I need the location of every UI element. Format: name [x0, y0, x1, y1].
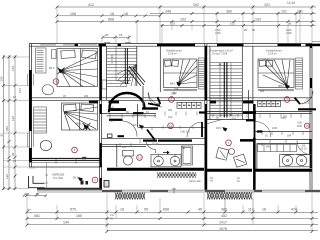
right wall double line	[310, 44, 312, 190]
unit3 bed lamp symbol	[285, 84, 290, 89]
unit2 hall door leaf	[118, 135, 125, 137]
dimension line top 1	[57, 6, 316, 8]
unit1 wardrobe room2	[34, 107, 47, 133]
unit3 hall wall y=131.5	[255, 131, 312, 133]
stair2 text	[210, 50, 233, 56]
svg-text:395: 395	[0, 76, 4, 81]
unit2 bed	[164, 59, 198, 88]
unit1 bed room1	[57, 49, 98, 87]
stair1 duct box	[102, 80, 107, 89]
svg-text:Tra TILE: Tra TILE	[53, 176, 63, 180]
unit2 bed foot line	[164, 89, 198, 91]
unit3 bath door leaf	[309, 140, 311, 155]
svg-text:486: 486	[266, 146, 271, 149]
terrace door ticks	[56, 156, 101, 164]
stair2 stringer	[224, 62, 227, 117]
svg-text:262: 262	[193, 3, 199, 7]
svg-text:12.8 m²: 12.8 m²	[268, 52, 277, 56]
unit3 bath door arc	[297, 141, 309, 155]
stair2 treads	[210, 62, 242, 115]
svg-text:45: 45	[198, 208, 202, 212]
window mullion marks top wall	[40, 43, 131, 45]
dimension extension horizontals left	[4, 57, 30, 189]
dimension line top short stair	[103, 36, 129, 38]
unit3 hall wall vertical	[253, 104, 255, 190]
unit2 bed lamp symbol	[177, 82, 182, 87]
dimension line left 2	[8, 55, 10, 190]
stair2 bottom diagonal	[206, 120, 222, 125]
svg-text:575: 575	[70, 208, 76, 212]
unit1 round table	[40, 141, 51, 151]
svg-text:90: 90	[105, 33, 109, 37]
svg-text:96: 96	[288, 22, 292, 26]
unit3 dresser row	[258, 101, 281, 107]
unit2 texts row2	[110, 92, 176, 119]
svg-text:286: 286	[5, 126, 9, 131]
stair2 left wall	[209, 46, 211, 119]
stair2 walk arrows	[219, 63, 233, 117]
bottom site boundary double gray	[37, 190, 320, 192]
stair1 treads	[107, 49, 137, 87]
unit2 hall door arc	[123, 121, 138, 137]
svg-text:382: 382	[221, 208, 227, 212]
unit2 bedroom left wall	[159, 46, 161, 92]
stair1 winder dark block	[128, 66, 145, 86]
dimension labels top	[70, 1, 303, 37]
svg-text:194: 194	[63, 221, 69, 225]
svg-text:412: 412	[88, 3, 94, 7]
unit2 bath counter	[151, 155, 181, 167]
svg-text:2.60: 2.60	[286, 31, 292, 35]
unit3 wardrobe column	[296, 58, 303, 89]
svg-text:01%: 01%	[297, 121, 303, 125]
stair1 walk line	[116, 47, 130, 85]
svg-text:98.2: 98.2	[73, 176, 79, 180]
unit2 wall y=113.5	[102, 113, 156, 115]
unit2 bedroom door arc	[149, 92, 161, 104]
svg-text:145: 145	[11, 66, 15, 71]
unit2/unit3 party wall	[205, 44, 207, 190]
bottom hatch strip right	[207, 192, 252, 200]
unit2 bedroom text	[166, 49, 182, 56]
svg-text:260: 260	[84, 95, 89, 98]
room circle 7	[284, 97, 290, 103]
unit1/unit2 party wall	[100, 44, 102, 190]
unit1 hall column	[104, 181, 109, 188]
svg-text:B0.2: B0.2	[49, 66, 55, 70]
unit2 electrical box	[108, 134, 113, 138]
dimension line top 2 right	[150, 13, 316, 15]
stair1 right wall	[136, 46, 138, 86]
unit1 entry steps	[29, 176, 45, 188]
unit2 wardrobe column	[199, 58, 205, 89]
svg-text:101: 101	[264, 3, 270, 7]
unit2 bedroom door leaf	[158, 97, 161, 104]
left wall double line	[29, 44, 31, 167]
thick wall segments left	[29, 70, 31, 162]
room circle 6	[137, 155, 143, 161]
unit2 bath WC bowl	[123, 156, 132, 165]
svg-text:wand mark,: wand mark,	[189, 180, 202, 183]
svg-text:90: 90	[244, 28, 248, 32]
svg-text:125: 125	[11, 116, 15, 121]
unit3 bath cabinet row	[258, 145, 297, 152]
unit1 hall door marks	[81, 181, 89, 185]
svg-text:405: 405	[174, 88, 179, 91]
svg-text:18: 18	[119, 33, 123, 37]
unit3 bath top wall	[240, 139, 312, 143]
svg-text:348: 348	[165, 10, 171, 14]
unit2 wall y=115.8	[107, 115, 156, 117]
unit1 corner tick line	[45, 162, 48, 190]
unit3 armchair 1	[216, 147, 229, 160]
svg-text:18x17.5: 18x17.5	[110, 55, 113, 64]
svg-text:150: 150	[283, 116, 288, 119]
svg-text:290: 290	[171, 92, 176, 96]
svg-text:184: 184	[287, 134, 292, 137]
svg-text:B0.2: B0.2	[76, 122, 82, 126]
stair1 inner wall	[106, 46, 108, 100]
unit3 bath basin 2	[296, 155, 307, 166]
svg-text:05 50: 05 50	[29, 167, 36, 170]
dimension tick marks left	[2, 56, 17, 191]
svg-text:103: 103	[255, 17, 261, 21]
unit2 room2 door leaf	[201, 122, 203, 137]
room circle 4	[169, 97, 175, 103]
unit3 texts row2	[272, 116, 303, 130]
room circle 2	[72, 147, 78, 153]
unit2 bath hatch strip	[157, 172, 196, 178]
svg-text:11: 11	[138, 156, 141, 160]
svg-text:658: 658	[163, 208, 169, 212]
bottom hatch strip left	[115, 193, 145, 200]
svg-text:103: 103	[180, 17, 186, 21]
unit3 bath text	[266, 145, 307, 151]
svg-text:1978: 1978	[219, 227, 227, 231]
room circle 5	[168, 123, 174, 129]
row1/row2 separation wall y=100	[29, 98, 312, 101]
dimension labels left (rotated)	[0, 66, 22, 179]
dimension line left 3	[14, 55, 16, 190]
dimension tick marks top	[56, 6, 314, 39]
svg-text:1.88 1.01: 1.88 1.01	[180, 130, 191, 133]
room circle 3	[92, 177, 98, 183]
svg-text:02.10: 02.10	[304, 101, 311, 104]
svg-text:32%: 32%	[272, 126, 278, 130]
unit1 room2 lamp symbol	[83, 123, 91, 130]
svg-text:B8.2: B8.2	[170, 82, 176, 86]
dimension labels bottom	[26, 192, 297, 231]
svg-text:14.16: 14.16	[287, 1, 295, 5]
unit2 bath WC tank	[123, 151, 134, 157]
svg-text:101: 101	[18, 88, 22, 93]
dimension line top 2 left	[57, 15, 160, 17]
svg-text:02.10: 02.10	[301, 148, 308, 151]
dimension tick marks bottom	[23, 194, 314, 234]
top wall double line	[29, 44, 312, 47]
svg-text:081: 081	[34, 214, 40, 218]
window sills left wall	[28, 74, 34, 147]
unit2 room2 lamp symbol	[139, 125, 144, 130]
svg-text:858: 858	[108, 17, 114, 21]
svg-text:95: 95	[144, 208, 148, 212]
svg-text:18: 18	[124, 12, 128, 16]
unit3 wall y=113	[207, 112, 312, 114]
svg-text:974: 974	[291, 208, 297, 212]
svg-text:B8.2: B8.2	[279, 84, 285, 88]
unit2 shower box	[182, 146, 193, 165]
interior micro labels	[63, 88, 292, 149]
unit2 bath basin 1	[154, 155, 164, 166]
dimension line bottom 3	[27, 224, 318, 226]
svg-text:13: 13	[285, 98, 289, 102]
unit3 living lamp symbol	[223, 127, 228, 132]
dimension line top 3	[57, 21, 316, 23]
bottom boundary tick	[172, 188, 176, 194]
svg-text:18: 18	[120, 208, 124, 212]
svg-text:158: 158	[70, 12, 76, 16]
svg-text:101: 101	[230, 22, 235, 26]
unit3 bed foot line	[258, 89, 294, 91]
unit1 corner dim line	[25, 195, 47, 198]
unit1 terrace door double	[31, 158, 102, 160]
svg-text:2.60: 2.60	[215, 31, 221, 35]
unit3 wall y=119.5	[207, 119, 254, 121]
svg-text:260: 260	[82, 156, 87, 160]
unit3 door text	[304, 99, 311, 105]
unit2 sideboard row2	[177, 102, 201, 108]
bottom boundary darker segments	[102, 190, 320, 192]
unit2 top door leaf	[148, 104, 160, 106]
thick wall segments right	[310, 44, 312, 168]
room circle 1	[53, 79, 59, 85]
svg-text:95: 95	[11, 152, 15, 156]
svg-text:452: 452	[221, 214, 227, 218]
unit3 bath counter	[280, 155, 312, 167]
svg-text:185: 185	[76, 214, 82, 218]
svg-text:12.8 m²: 12.8 m²	[168, 52, 177, 56]
svg-text:405: 405	[260, 90, 265, 93]
thick segs unit2 walls	[133, 113, 205, 141]
bottom wall text	[189, 177, 240, 183]
unit1 nightstand	[52, 50, 57, 59]
svg-text:12: 12	[169, 124, 173, 128]
svg-text:1417: 1417	[219, 221, 227, 225]
interior wall tick marks unit3	[213, 114, 303, 147]
stair1 curved landing wall	[109, 93, 144, 109]
unit3 corridor mid line	[248, 90, 250, 120]
unit3 bath left wall	[256, 143, 258, 169]
unit3 bedroom door leaf	[295, 98, 301, 105]
unit1 bed room2	[62, 103, 98, 130]
svg-text:120: 120	[5, 174, 9, 179]
dimension line left 1	[3, 55, 5, 190]
svg-text:360: 360	[226, 10, 232, 14]
unit3 bed	[258, 59, 294, 88]
interior wall tick marks unit2	[110, 112, 197, 147]
thick segs unit3 walls	[240, 109, 316, 140]
svg-text:290: 290	[168, 109, 173, 112]
svg-text:186: 186	[122, 146, 127, 149]
unit1 wardrobe room1	[36, 48, 47, 73]
thick party wall overlays	[101, 46, 255, 190]
unit1 bottom thin wall	[29, 166, 101, 168]
svg-text:191: 191	[297, 10, 303, 14]
svg-text:101: 101	[281, 10, 287, 14]
unit1 room1 lamp symbol	[58, 68, 65, 75]
dimension extension verticals top	[57, 5, 312, 43]
thick segments row separation y=101	[89, 101, 254, 104]
interior vertical dim line unit3 bath	[225, 114, 284, 212]
unit3 corridor wall	[252, 46, 254, 104]
unit3 hall door arc	[255, 122, 270, 138]
svg-text:10.2m: 10.2m	[152, 142, 159, 146]
unit2 bath door leaf	[147, 130, 155, 140]
room circle 8	[304, 123, 309, 128]
unit3 side table	[229, 149, 235, 155]
unit2 room2 door arc	[187, 122, 202, 137]
svg-text:18: 18	[262, 208, 266, 212]
svg-text:152: 152	[168, 115, 173, 119]
dimension line bottom 1	[27, 212, 318, 214]
top right edge line	[312, 41, 320, 43]
bottom outer wall unit1 dark	[37, 188, 101, 190]
unit3 hall door leaf	[254, 122, 256, 138]
thick wall segments top	[75, 44, 320, 47]
unit1 hall text	[52, 173, 65, 181]
unit2 bath shower arrow	[163, 151, 169, 154]
unit2 wall y=127.5	[138, 126, 205, 128]
svg-text:575: 575	[170, 22, 175, 26]
svg-text:18 stg 17.5/28: 18 stg 17.5/28	[212, 53, 228, 56]
dimension extension verticals bottom	[27, 193, 312, 232]
dimension line top 4 right	[160, 25, 316, 27]
svg-text:16.2: 16.2	[133, 123, 139, 127]
bathroom bottom thick wall	[107, 169, 312, 170]
unit3 bath basin 1	[282, 155, 293, 166]
unit2 bath basin 2	[170, 155, 180, 166]
room circle 9	[226, 140, 232, 146]
unit2 top door arc	[148, 93, 162, 107]
unit2 bath top wall	[102, 139, 205, 147]
svg-text:92: 92	[0, 133, 4, 137]
dimension line bottom 2	[27, 218, 318, 220]
unit3 bedroom door arc	[300, 91, 313, 104]
dimension line bottom 4	[107, 229, 318, 231]
svg-text:49.5: 49.5	[216, 126, 222, 130]
stair1 winder diagonals	[117, 65, 137, 87]
svg-text:18: 18	[110, 12, 114, 16]
svg-text:02%: 02%	[297, 124, 303, 128]
unit2 bath door arc	[146, 140, 156, 153]
unit1 hall lamp symbol	[78, 177, 83, 182]
stair2 right wall	[241, 46, 243, 119]
svg-text:15: 15	[305, 124, 309, 128]
unit2 hall wall bar B	[109, 119, 123, 121]
unit3 bedroom text	[266, 49, 282, 56]
unit1 armchair room1	[42, 85, 53, 95]
svg-text:57: 57	[28, 208, 32, 212]
unit2 hall wall vertical	[137, 104, 139, 127]
unit2 hall wall bar A	[109, 109, 126, 112]
hatch midlines	[115, 175, 252, 196]
unit3 armchair 2	[234, 154, 247, 167]
room circle numbers	[55, 80, 309, 183]
svg-text:112: 112	[232, 117, 237, 120]
svg-text:90: 90	[252, 28, 256, 32]
unit2 bath left wall	[116, 144, 118, 167]
svg-text:ADRESSE: ADRESSE	[52, 173, 65, 177]
stair1 stringer	[125, 48, 127, 84]
